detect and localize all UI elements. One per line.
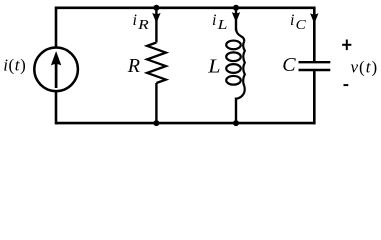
svg-text:R: R — [127, 55, 140, 77]
svg-text:iR: iR — [133, 12, 150, 33]
resistor R zigzag — [147, 43, 166, 84]
wire R branch lower — [155, 83, 157, 123]
svg-text:v(t): v(t) — [351, 57, 379, 76]
current source i(t) circle — [34, 48, 78, 92]
wire R branch upper — [155, 8, 157, 43]
capacitor C top plate — [299, 61, 331, 63]
node top-L junction dot — [233, 5, 239, 11]
node bottom-L junction dot — [233, 120, 239, 126]
i_L current arrowhead — [232, 12, 240, 22]
wire left edge lower segment — [55, 91, 58, 124]
plus sign — [342, 40, 351, 51]
node top-R junction dot — [153, 5, 159, 11]
node bottom-R junction dot — [153, 120, 159, 126]
i_R current arrowhead — [152, 13, 160, 23]
wire right edge lower (C branch) — [313, 70, 316, 124]
inductor L coil — [226, 29, 245, 99]
wire right edge upper (C branch) — [313, 7, 316, 63]
minus sign — [344, 84, 349, 86]
wire bottom rail — [56, 122, 314, 125]
i_C current arrowhead — [310, 13, 318, 23]
svg-text:i(t): i(t) — [3, 55, 26, 74]
wire left edge upper segment — [55, 7, 58, 49]
svg-text:L: L — [207, 55, 220, 77]
svg-text:C: C — [282, 54, 296, 76]
svg-text:iC: iC — [290, 12, 307, 33]
svg-text:iL: iL — [212, 12, 228, 33]
current source arrow — [51, 51, 61, 88]
wire top rail — [56, 7, 314, 10]
capacitor C bottom plate — [299, 69, 331, 71]
wire L branch upper — [235, 8, 237, 31]
wire L branch lower — [235, 98, 237, 124]
